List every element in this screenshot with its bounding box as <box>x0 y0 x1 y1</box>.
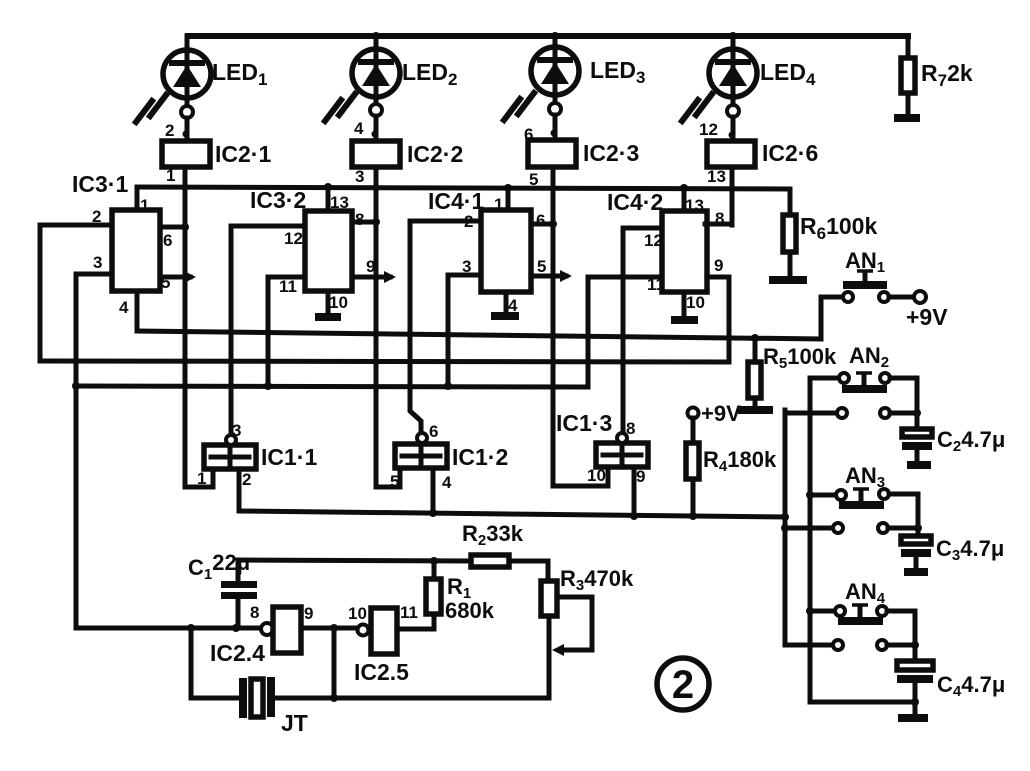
svg-text:1: 1 <box>166 166 175 185</box>
svg-text:+9V: +9V <box>701 401 741 426</box>
svg-text:IC4·2: IC4·2 <box>607 189 663 215</box>
svg-text:13: 13 <box>707 167 726 186</box>
wire R2 to R3 corner <box>546 561 551 581</box>
gate IC1-2 <box>376 422 508 517</box>
svg-text:IC2.5: IC2.5 <box>354 659 409 685</box>
svg-text:13: 13 <box>685 196 704 215</box>
svg-text:R5100k: R5100k <box>763 344 837 372</box>
svg-text:9: 9 <box>714 256 723 275</box>
svg-text:11: 11 <box>279 277 297 296</box>
wire button bottom rail <box>810 700 915 705</box>
wire IC4-2 pin11 <box>588 277 662 387</box>
svg-text:IC2.4: IC2.4 <box>210 640 265 666</box>
svg-text:R72k: R72k <box>921 60 973 90</box>
svg-text:3: 3 <box>93 253 102 272</box>
svg-text:2: 2 <box>672 663 694 707</box>
resistor R6 100k <box>783 189 877 276</box>
wire oscillator input line <box>76 626 261 631</box>
wire IC3-1 pin4 stub <box>135 291 140 331</box>
svg-text:2: 2 <box>165 121 174 140</box>
node IC4-1 pin6 junction <box>549 220 557 228</box>
inverter IC2.5 <box>348 603 418 685</box>
svg-text:JT: JT <box>281 710 308 736</box>
wire IC3-1 pin2 to left <box>40 225 112 361</box>
wire crystal branch vertical <box>332 628 337 698</box>
wire data bus2 <box>40 361 729 362</box>
ground C2 <box>907 461 931 469</box>
svg-text:6: 6 <box>163 231 172 250</box>
wire IC3-1 pin1 stub <box>135 187 140 210</box>
capacitor C3 4.7u <box>901 536 1004 569</box>
wire IC2.4 output <box>301 626 358 631</box>
wire IC4-2 pin10 stub <box>682 292 687 316</box>
wire oscillator loop left leg <box>191 628 239 698</box>
resistor R2 33k <box>462 521 548 567</box>
terminal +9V at AN1 <box>906 291 948 330</box>
wire IC3-2 pin8 <box>352 220 376 225</box>
pushbutton AN3 <box>781 463 922 536</box>
terminal +9V at R4 <box>688 401 742 426</box>
ground IC3-2 <box>315 313 341 321</box>
svg-text:12: 12 <box>699 120 718 139</box>
node clock bus left junction <box>72 382 80 390</box>
svg-text:C34.7μ: C34.7μ <box>936 536 1004 564</box>
node C1 tap <box>232 624 240 632</box>
ground C3 <box>904 568 928 576</box>
flip-flop IC3-1 <box>72 171 172 317</box>
svg-text:6: 6 <box>524 125 533 144</box>
crystal JT <box>239 677 308 736</box>
flip-flop IC4-2 <box>607 189 724 312</box>
wire IC3-1 pin3 to left long vertical <box>76 274 112 628</box>
resistor R7 2k <box>901 36 973 114</box>
wire IC3-2 pin11 <box>268 277 305 386</box>
node IC4-1 pin1 junction <box>504 184 512 192</box>
wire clock bus3 <box>76 386 588 387</box>
svg-text:4: 4 <box>354 119 364 138</box>
wire reset bus1 <box>137 331 821 339</box>
node IC4-1 pin3 to clock bus <box>444 382 452 390</box>
svg-text:6: 6 <box>536 211 545 230</box>
wire IC4-2 pin9 <box>707 277 729 362</box>
wire top supply rail <box>188 33 908 39</box>
svg-text:2: 2 <box>242 470 251 489</box>
gate IC2-2 <box>352 119 463 186</box>
wire IC3-1 pin5 arrow <box>160 271 196 283</box>
LED LED2 <box>325 36 457 141</box>
gate IC2-3 <box>524 125 639 189</box>
pushbutton AN4 <box>785 579 919 661</box>
wire IC4-1 pin4 stub <box>504 292 509 312</box>
svg-text:13: 13 <box>330 193 349 212</box>
svg-text:IC4·1: IC4·1 <box>428 188 484 214</box>
LED LED1 <box>136 36 267 141</box>
svg-text:680k: 680k <box>445 598 495 623</box>
node LED2 rail junction <box>372 32 380 40</box>
node crystal tap <box>330 624 338 632</box>
resistor R4 180k <box>686 418 777 520</box>
wire button column B <box>783 410 788 645</box>
resistor R1 680k <box>426 561 495 623</box>
wire button column A <box>808 378 813 702</box>
capacitor C2 4.7u <box>902 427 1005 462</box>
node C4 bottom junction <box>911 698 919 706</box>
flip-flop IC4-1 <box>428 188 546 315</box>
svg-text:10: 10 <box>329 293 348 312</box>
ground R7 <box>894 114 920 122</box>
wire IC4-2 pin12 down to IC1-3 pin8 <box>623 228 662 433</box>
wire oscillator bottom rail <box>275 696 549 701</box>
ground IC4-1 <box>491 312 519 320</box>
node loop tap <box>187 624 195 632</box>
svg-text:5: 5 <box>537 257 546 276</box>
pushbutton AN1 <box>843 248 914 302</box>
svg-text:12: 12 <box>644 231 663 250</box>
svg-text:8: 8 <box>626 419 635 438</box>
inverter IC2.4 <box>210 603 313 666</box>
ground C4 <box>898 714 928 722</box>
svg-text:3: 3 <box>355 167 364 186</box>
wire channel3 vertical <box>551 167 556 486</box>
wire bus1 up to AN1 <box>821 297 843 339</box>
svg-text:IC2·2: IC2·2 <box>407 141 463 167</box>
svg-text:9: 9 <box>304 604 313 623</box>
svg-text:IC3·2: IC3·2 <box>250 187 306 213</box>
wire IC4-2 pin13 stub <box>682 188 687 211</box>
svg-text:C24.7μ: C24.7μ <box>937 427 1005 455</box>
gate IC2-6 <box>699 120 818 186</box>
wire IC2.5 output <box>397 614 434 629</box>
resistor R3 470k potentiometer <box>541 566 634 698</box>
svg-text:4: 4 <box>442 473 452 492</box>
figure number 2 <box>657 658 709 710</box>
svg-text:IC1·3: IC1·3 <box>556 410 612 436</box>
svg-text:10: 10 <box>348 604 367 623</box>
svg-text:+9V: +9V <box>906 304 948 330</box>
svg-text:1: 1 <box>494 195 503 214</box>
svg-text:11: 11 <box>400 603 418 622</box>
wire top bus <box>137 187 790 189</box>
svg-text:IC3·1: IC3·1 <box>72 171 128 197</box>
svg-text:IC1·2: IC1·2 <box>452 444 508 470</box>
svg-text:R233k: R233k <box>462 521 524 549</box>
node IC3-1 pin6 junction <box>181 223 189 231</box>
svg-text:12: 12 <box>284 229 303 248</box>
svg-text:IC2·3: IC2·3 <box>583 140 639 166</box>
wire channel2 vertical <box>374 167 379 487</box>
ground R6 <box>769 276 807 284</box>
svg-text:R4180k: R4180k <box>703 447 777 475</box>
svg-text:3: 3 <box>232 421 241 440</box>
svg-text:10: 10 <box>686 293 705 312</box>
svg-text:1: 1 <box>140 196 149 215</box>
LED LED4 <box>682 36 816 141</box>
wire IC4-1 pin5 arrow <box>531 270 572 282</box>
wire IC3-1 pin6 <box>160 225 185 230</box>
svg-text:9: 9 <box>366 257 375 276</box>
svg-text:R3470k: R3470k <box>560 566 634 594</box>
wire IC4-1 pin6 <box>531 222 553 227</box>
node LED3 rail junction <box>551 32 559 40</box>
node IC3-2 pin11 to clock bus <box>264 382 272 390</box>
wire IC3-2 pin10 stub <box>326 291 331 314</box>
capacitor C4 4.7u <box>897 661 1005 714</box>
svg-text:IC1·1: IC1·1 <box>261 444 317 470</box>
wire channel4 vertical <box>730 167 735 225</box>
svg-text:IC2·6: IC2·6 <box>762 140 818 166</box>
node IC3-2 pin8 junction <box>372 218 380 226</box>
node LED4 rail junction <box>729 32 737 40</box>
svg-text:5: 5 <box>390 472 399 491</box>
svg-text:R6100k: R6100k <box>800 213 877 243</box>
wire IC4-1 pin1 stub <box>506 188 511 210</box>
node IC4-2 pin13 junction <box>680 184 688 192</box>
svg-text:9: 9 <box>636 467 645 486</box>
svg-text:1: 1 <box>197 469 206 488</box>
svg-text:IC2·1: IC2·1 <box>215 141 271 167</box>
wire IC3-2 pin12 down to IC1-1 pin3 <box>231 226 305 435</box>
gate IC1-3 <box>553 410 648 520</box>
node R1 top junction <box>430 557 438 565</box>
wire IC3-2 pin9 arrow <box>352 271 396 283</box>
gate IC1-1 <box>185 421 317 511</box>
wire channel1 vertical <box>183 167 188 487</box>
flip-flop IC3-2 <box>250 187 375 312</box>
wire IC4-2 pin8 <box>705 222 732 227</box>
wire IC4-1 pin3 <box>448 275 481 386</box>
node bus4 to button column <box>781 513 789 521</box>
svg-text:6: 6 <box>429 422 438 441</box>
resistor R5 100k <box>748 334 837 407</box>
gate IC2-1 <box>162 121 271 185</box>
node IC3-2 pin13 junction <box>324 183 332 191</box>
ground R5 <box>738 406 773 414</box>
capacitor C1 22u <box>188 550 257 628</box>
wire oscillator feedback line <box>238 560 471 561</box>
svg-text:C44.7μ: C44.7μ <box>937 672 1005 700</box>
wire mid bus4 <box>239 511 785 517</box>
wire IC3-2 pin13 stub <box>326 187 331 211</box>
svg-text:4: 4 <box>119 298 129 317</box>
node crystal branch bottom <box>330 694 338 702</box>
ground IC4-2 <box>671 316 698 324</box>
svg-text:8: 8 <box>250 603 259 622</box>
svg-text:10: 10 <box>587 466 606 485</box>
wire IC4-1 pin2 down to IC1-2 pin6 <box>410 221 481 433</box>
pushbutton AN2 <box>785 343 921 429</box>
LED LED3 <box>504 36 645 140</box>
